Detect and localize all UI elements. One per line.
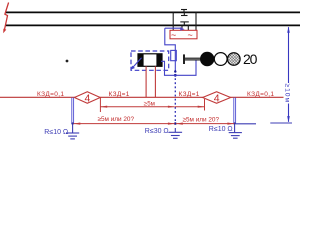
- svg-text:4: 4: [85, 92, 91, 104]
- blue wire ground line to signal mast: [175, 60, 196, 75]
- wire rail2 to feed box stub B: [187, 25, 189, 30]
- signal lamp hatched: [228, 53, 241, 66]
- svg-text:R≤10 Ω: R≤10 Ω: [209, 126, 233, 133]
- earth electrode middle: [169, 128, 183, 138]
- signal mast upper line: [185, 57, 200, 59]
- svg-text:≥5м или 20?: ≥5м или 20?: [183, 117, 220, 124]
- dashed ground conductor line: [174, 70, 176, 123]
- svg-text:КЗД=0,1: КЗД=0,1: [37, 91, 64, 98]
- stray dot marker: [66, 60, 69, 63]
- earth surface line segment A: [236, 123, 256, 125]
- dimension line ground spacing right: [176, 123, 234, 125]
- earth electrode left: [66, 124, 79, 139]
- vertical dimension 10m arrow up: [287, 27, 290, 33]
- vertical dimension 10m line upper: [288, 27, 290, 83]
- junction node right ground: [233, 122, 235, 124]
- lightning stroke symbol: [3, 3, 8, 34]
- red track lead left: [145, 66, 147, 97]
- adjustment arrow on enclosure: [131, 58, 142, 70]
- wire rail1 to feed box right: [195, 12, 197, 30]
- svg-text:R≤10 Ω: R≤10 Ω: [44, 129, 68, 136]
- red track lead right: [154, 66, 156, 97]
- vertical dimension 10m line lower: [288, 104, 290, 122]
- junction dot J2 on dashed line: [174, 74, 177, 77]
- ground lead below spark gap: [174, 61, 176, 70]
- ground conductor double line right: [234, 98, 236, 124]
- relay element body: [138, 54, 162, 67]
- rail line 2: [6, 24, 301, 26]
- blue grounding down-lead from tap: [165, 28, 176, 50]
- svg-text:R≤30 Ω: R≤30 Ω: [145, 128, 169, 135]
- junction dot at dimension crossing: [174, 122, 177, 125]
- ground lead through spark gap: [174, 50, 176, 60]
- svg-text:КЗД=0,1: КЗД=0,1: [247, 91, 274, 98]
- svg-text:КЗД=1: КЗД=1: [109, 91, 130, 98]
- svg-text:~: ~: [188, 30, 193, 40]
- capacitor C2 between rails: [180, 12, 189, 25]
- svg-text:≥5м: ≥5м: [144, 100, 155, 107]
- earth electrode right: [229, 124, 242, 139]
- junction node left ground: [71, 122, 73, 124]
- rail line 1: [6, 11, 301, 13]
- track feed transformer box: [170, 30, 197, 39]
- capacitor C1 above rail 1: [181, 10, 187, 13]
- dimension extension line at diamond left: [99, 98, 101, 112]
- dimension line 5m right (no label): [175, 106, 205, 108]
- spark gap box on ground lead: [171, 50, 177, 60]
- signal lamp black: [200, 52, 214, 66]
- coupling diamond right: [203, 92, 231, 104]
- svg-text:~: ~: [171, 30, 176, 40]
- dimension line ground spacing left: [74, 123, 175, 125]
- coupling diamond left: [74, 92, 100, 104]
- svg-text:≥5м или 20?: ≥5м или 20?: [98, 116, 135, 123]
- vertical dimension 10m arrow down: [287, 116, 290, 122]
- signal lamp white: [214, 53, 227, 66]
- earth surface line segment B: [270, 122, 292, 124]
- dimension line 5m left: [100, 106, 174, 108]
- main cable red line: [0, 96, 284, 98]
- arrowhead of tap wire: [180, 27, 185, 31]
- svg-text:≥10м: ≥10м: [284, 84, 291, 104]
- dimension extension line at diamond right: [204, 99, 206, 111]
- relay cabinet dashed enclosure: [131, 51, 169, 70]
- relay end fill left: [138, 54, 144, 67]
- junction dot J1 on dashed line: [174, 70, 176, 72]
- relay end fill right: [156, 54, 162, 67]
- signal mast lower line: [185, 59, 200, 61]
- blue wire relay to ground line: [161, 61, 175, 75]
- blue tap wire with arrow to rail joint: [165, 27, 183, 29]
- svg-text:4: 4: [214, 92, 220, 104]
- svg-text:КЗД=1: КЗД=1: [179, 91, 200, 98]
- wire rail2 to feed box stub A: [181, 25, 183, 30]
- signal mast base bar: [183, 54, 185, 64]
- ground conductor double line left: [72, 98, 74, 124]
- wire rail1 to feed box left: [172, 12, 174, 30]
- svg-text:20: 20: [243, 51, 258, 67]
